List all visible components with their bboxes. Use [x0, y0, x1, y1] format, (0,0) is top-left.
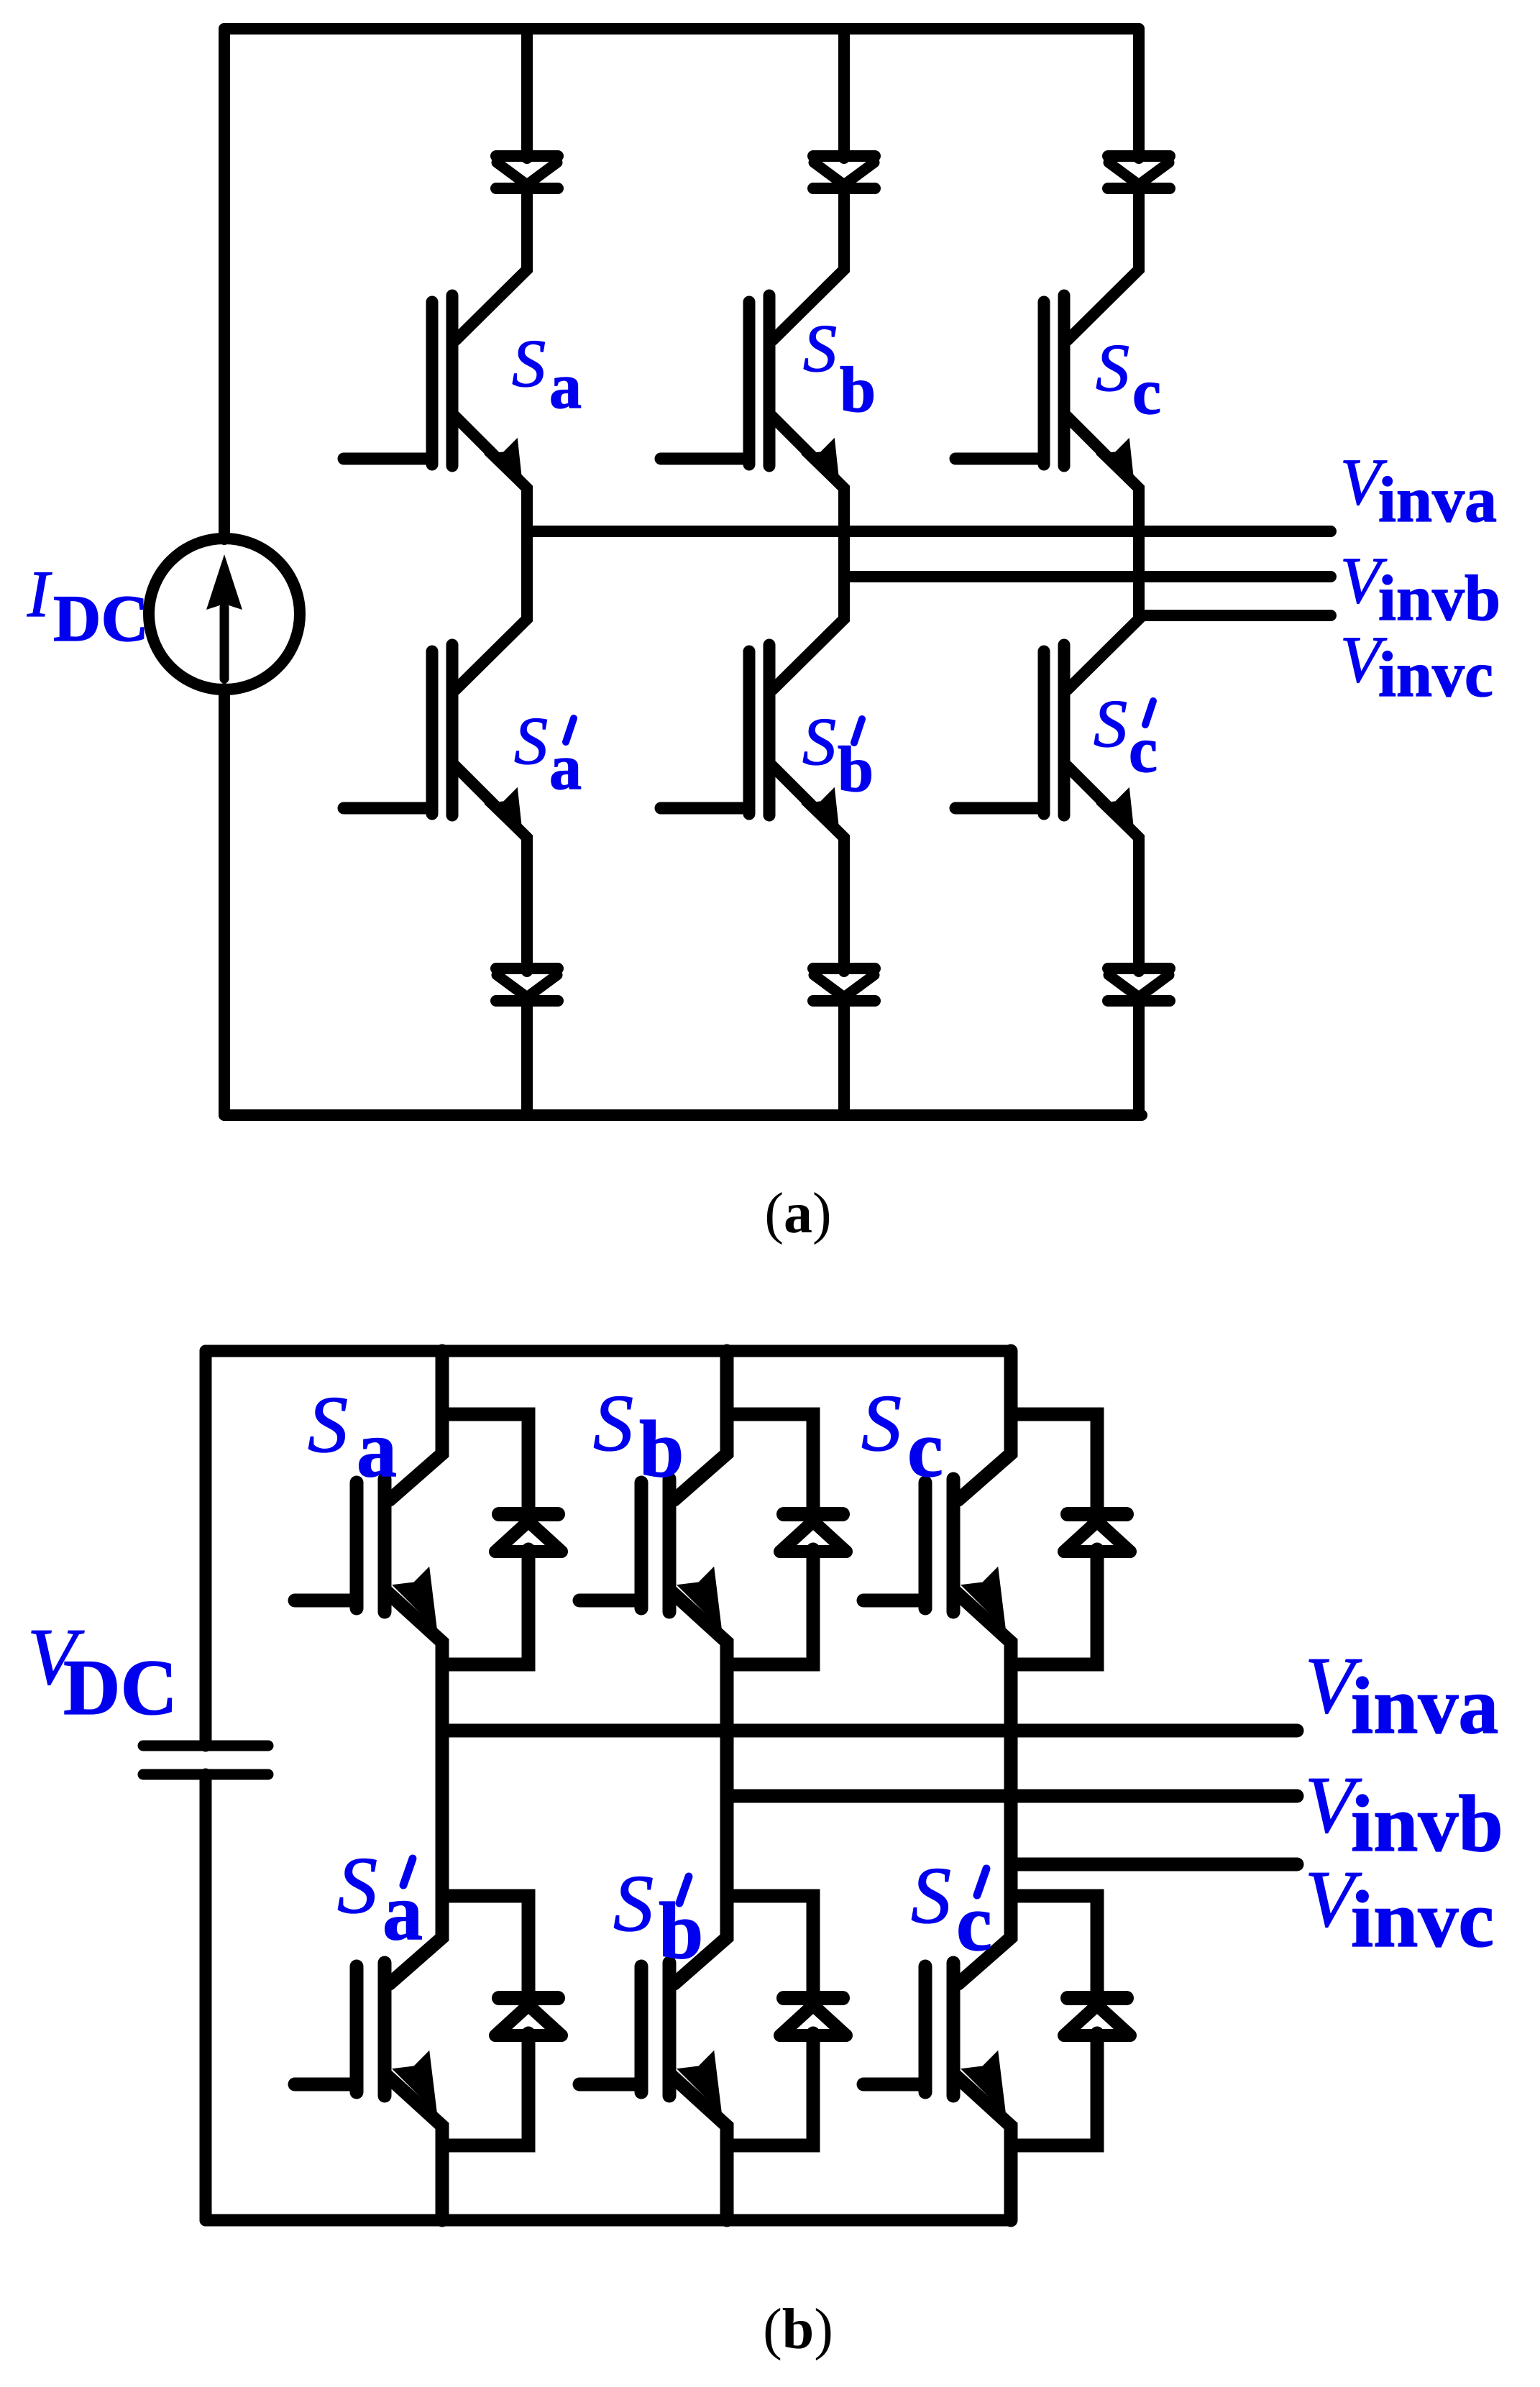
label VDC [27, 1613, 178, 1731]
label Sa (b) [308, 1380, 397, 1494]
wire: upper diode branch bottom (leg a, b) [442, 1549, 528, 1664]
wire: Sb emitter / phase node b / Sb' collector (b) [670, 1590, 727, 1984]
svg-text:S: S [593, 1379, 633, 1468]
wire: upper diode branch top (leg c, b) [1011, 1414, 1097, 1517]
wire: phase output line Vinvb (b) [727, 1790, 1297, 1803]
svg-text:(a): (a) [764, 1182, 831, 1245]
wire: Sc emitter / phase node c / Sc' collector (b) [954, 1590, 1011, 1984]
wire: Sa' emitter to bottom rail (b) [385, 2074, 442, 2220]
diode Dc (anti-parallel with Sc) [1064, 1514, 1130, 1552]
wire: diode Da2 to bottom rail [521, 1001, 533, 1115]
wire: DC bus top rail (b) [206, 1345, 1011, 1357]
label Vinvb (b) [1305, 1761, 1503, 1869]
wire: left DC rail upper segment (b) [200, 1351, 212, 1746]
wire: Sc' emitter to bottom rail (b) [954, 2074, 1011, 2220]
svg-text:(b): (b) [763, 2298, 833, 2361]
IGBT Sc (top switch leg c) [955, 295, 1135, 492]
IGBT Sa (top switch leg a, b) [295, 1479, 437, 1630]
wire: Sc emitter / phase node c / Sc' collector [1067, 416, 1139, 689]
label Sc (b) [861, 1379, 943, 1494]
svg-text:S: S [1094, 687, 1127, 761]
IGBT Sc (top switch leg c, b) [863, 1479, 1006, 1630]
wire: bottom DC rail (a) [224, 1109, 1142, 1121]
wire: Sb' emitter to bottom rail (b) [670, 2074, 727, 2220]
IGBT Sb (top switch leg b, b) [579, 1479, 722, 1630]
wire: leg c from top rail to series diode (a) [1133, 29, 1145, 158]
label Vinva (b) [1305, 1641, 1498, 1751]
svg-text:DC: DC [63, 1644, 178, 1731]
svg-text:S: S [512, 326, 546, 401]
IGBT Sa' (bottom switch leg a) [344, 645, 523, 842]
capacitor VDC [143, 1746, 268, 1774]
wire: diode Da1 to IGBT Sa collector [456, 188, 527, 340]
svg-text:a: a [549, 351, 582, 422]
diode Db1 (series top, leg b) [813, 156, 875, 188]
svg-text:a: a [357, 1405, 397, 1494]
diode Db' (anti-parallel with Sb') [780, 1998, 846, 2035]
wire: phase output line Vinvc (b) [1011, 1858, 1297, 1871]
wire: diode Db1 to IGBT Sb collector [773, 188, 844, 340]
diode Dc' (anti-parallel with Sc') [1064, 1998, 1130, 2035]
label Vinvc (b) [1305, 1855, 1494, 1964]
svg-text:b: b [838, 734, 874, 805]
current source IDC [149, 539, 300, 689]
wire: lower diode branch bottom (leg b, b) [727, 2033, 813, 2145]
wire: upper diode branch bottom (leg b, b) [727, 1549, 813, 1664]
diode Db2 (series bottom, leg b) [813, 968, 875, 1001]
label Vinvc (a) [1340, 623, 1493, 710]
IGBT Sc' (bottom switch leg c) [955, 645, 1135, 842]
label Vinva (a) [1340, 445, 1497, 536]
wire: upper diode branch bottom (leg c, b) [1011, 1549, 1097, 1664]
IGBT Sb (top switch leg b) [661, 295, 840, 492]
label Sc (a) [1096, 331, 1161, 428]
diode Db (anti-parallel with Sb) [780, 1514, 846, 1552]
wire: Sa' emitter to series diode Da2 [455, 766, 527, 971]
wire: leg a from top rail to series diode (a) [521, 29, 533, 158]
svg-text:b: b [659, 1887, 703, 1976]
diode Dc2 (series bottom, leg c) [1108, 968, 1170, 1001]
label Sa' (b) [337, 1841, 423, 1957]
svg-text:invb: invb [1378, 563, 1500, 634]
wire: phase output line Vinvb (a) [844, 571, 1331, 582]
svg-text:inva: inva [1351, 1662, 1498, 1751]
label Sb' (a) [802, 705, 874, 805]
label Vinvb (a) [1340, 544, 1500, 634]
svg-text:DC: DC [53, 582, 149, 655]
circuit (a): three-phase current-source inverter [27, 29, 1500, 1245]
wire: bottom DC rail (b) [206, 2214, 1011, 2227]
svg-text:S: S [861, 1379, 902, 1468]
svg-text:I: I [27, 557, 52, 631]
wire: DC bus top rail (a) [224, 23, 1139, 35]
wire: left DC rail lower segment (b) [200, 1774, 212, 2220]
label Sa (a) [512, 326, 582, 422]
wire: upper diode branch top (leg b, b) [727, 1414, 813, 1517]
IGBT Sb' (bottom switch leg b) [661, 645, 840, 842]
IGBT Sc' (bottom switch leg c, b) [863, 1963, 1006, 2114]
wire: left DC rail upper segment (a) [219, 29, 230, 539]
label Sc' (b) [911, 1851, 992, 1968]
circuit (b): three-phase voltage-source inverter [27, 1351, 1503, 2361]
wire: Sa emitter / phase node a / Sa' collector [455, 416, 527, 689]
wire: left DC rail lower segment (a) [219, 689, 230, 1115]
wire: leg a from top rail to Sa collector (b) [390, 1351, 442, 1500]
svg-text:c: c [1129, 715, 1158, 786]
svg-text:b: b [840, 354, 876, 426]
diode Da' (anti-parallel with Sa') [495, 1998, 562, 2035]
svg-text:a: a [549, 732, 582, 803]
IGBT Sa (top switch leg a) [344, 295, 523, 492]
wire: diode Db2 to bottom rail [838, 1001, 850, 1115]
wire: diode Dc2 to bottom rail [1133, 1001, 1145, 1115]
IGBT Sa' (bottom switch leg a, b) [295, 1963, 437, 2114]
diode Da (anti-parallel with Sa) [495, 1514, 562, 1552]
wire: leg c from top rail to Sc collector (b) [958, 1351, 1011, 1500]
wire: lower diode branch top (leg c, b) [1011, 1896, 1097, 2001]
wire: phase output line Vinva (a) [527, 526, 1331, 537]
svg-text:S: S [337, 1841, 377, 1930]
svg-text:c: c [1132, 357, 1161, 428]
label Sb (a) [803, 311, 876, 426]
svg-text:invb: invb [1351, 1779, 1503, 1869]
wire: leg b from top rail to series diode (a) [838, 29, 850, 158]
svg-text:S: S [514, 704, 548, 779]
wire: upper diode branch top (leg a, b) [442, 1414, 528, 1517]
label IDC [27, 557, 149, 655]
svg-text:inva: inva [1378, 464, 1497, 536]
svg-text:S: S [1096, 331, 1129, 406]
svg-text:invc: invc [1378, 639, 1493, 710]
wire: phase output line Vinva (b) [442, 1724, 1297, 1738]
svg-text:c: c [907, 1405, 943, 1494]
svg-text:c: c [956, 1879, 992, 1968]
wire: lower diode branch top (leg b, b) [727, 1896, 813, 2001]
diode Da1 (series top, leg a) [496, 156, 558, 188]
svg-text:b: b [639, 1405, 684, 1494]
label Sc' (a) [1094, 687, 1158, 786]
wire: lower diode branch bottom (leg c, b) [1011, 2033, 1097, 2145]
wire: leg b from top rail to Sb collector (b) [674, 1351, 727, 1500]
svg-text:S: S [802, 705, 836, 779]
label Sb (b) [593, 1379, 684, 1494]
svg-text:S: S [803, 311, 837, 386]
label Sb' (b) [613, 1859, 703, 1976]
wire: Sc' emitter to series diode Dc2 [1067, 766, 1139, 971]
wire: Sb emitter / phase node b / Sb' collector [772, 416, 844, 689]
svg-text:a: a [382, 1868, 423, 1957]
diode Da2 (series bottom, leg a) [496, 968, 558, 1001]
wire: lower diode branch top (leg a, b) [442, 1896, 528, 2001]
wire: diode Dc1 to IGBT Sc collector [1068, 188, 1139, 340]
wire: lower diode branch bottom (leg a, b) [442, 2033, 528, 2145]
IGBT Sb' (bottom switch leg b, b) [579, 1963, 722, 2114]
svg-text:S: S [911, 1851, 951, 1941]
svg-text:invc: invc [1351, 1875, 1494, 1964]
svg-text:S: S [308, 1380, 348, 1470]
svg-text:S: S [613, 1859, 654, 1948]
label Sa' (a) [514, 704, 582, 803]
diode Dc1 (series top, leg c) [1108, 156, 1170, 188]
wire: phase output line Vinvc (a) [1139, 610, 1331, 621]
wire: Sa emitter / phase node a / Sa' collector (b) [385, 1590, 442, 1984]
wire: Sb' emitter to series diode Db2 [772, 766, 844, 971]
